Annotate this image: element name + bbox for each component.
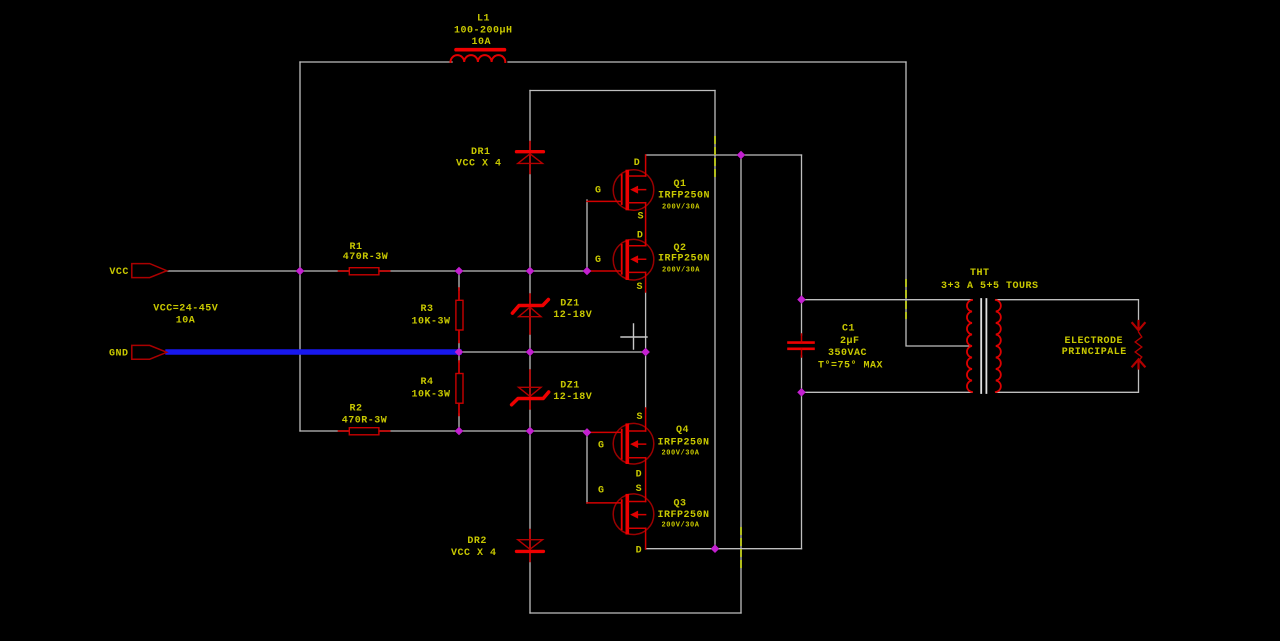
zener DZ1 lower	[512, 370, 549, 409]
svg-text:T°=75° MAX: T°=75° MAX	[818, 360, 883, 372]
svg-text:Q4: Q4	[676, 425, 689, 436]
net highlight dashes x741	[740, 528, 742, 567]
diode DR1	[517, 142, 544, 174]
wire rail y90	[530, 90, 715, 92]
wire left rail x300	[299, 62, 301, 431]
wire bottom outer rail y613	[530, 612, 741, 614]
svg-text:200V/30A: 200V/30A	[662, 522, 700, 530]
mosfet Q2	[587, 239, 654, 292]
transformer THT secondary winding	[996, 300, 1001, 392]
svg-text:12-18V: 12-18V	[553, 392, 592, 403]
wire center tap x906	[906, 62, 971, 346]
svg-text:G: G	[598, 485, 605, 496]
svg-text:G: G	[595, 255, 602, 266]
svg-text:200V/30A: 200V/30A	[662, 204, 700, 212]
svg-text:S: S	[638, 212, 645, 223]
junction VCC / left rail	[296, 267, 305, 276]
wire bottom drain rail y549	[646, 548, 802, 550]
junction GND rail / DZ1	[526, 348, 535, 357]
wire R3 column x459	[458, 271, 460, 352]
wire VCC rail y271	[167, 270, 587, 272]
svg-text:VCC: VCC	[109, 267, 129, 278]
junction bottom rail / R4	[455, 427, 464, 436]
svg-text:100-200µH: 100-200µH	[454, 26, 513, 37]
junction C1 top node	[797, 295, 806, 304]
electrode spark gap symbol	[1132, 321, 1144, 369]
wire primary bottom y392	[802, 391, 973, 393]
junction C1 bottom node	[797, 388, 806, 397]
svg-text:G: G	[595, 186, 602, 197]
cursor crosshair	[621, 324, 647, 349]
svg-text:IRFP250N: IRFP250N	[658, 510, 710, 521]
wire bottom rail y431	[300, 430, 587, 432]
wire mid rail gray y352	[459, 351, 646, 353]
flag VCC	[132, 264, 167, 278]
svg-text:G: G	[598, 440, 605, 451]
svg-text:VCC=24-45V: VCC=24-45V	[153, 304, 218, 315]
svg-text:S: S	[637, 282, 644, 293]
svg-text:ELECTRODE: ELECTRODE	[1065, 336, 1124, 347]
junction bottom rail / DR2	[526, 427, 535, 436]
svg-text:S: S	[637, 412, 644, 423]
wire top rail y62	[300, 61, 906, 63]
svg-text:R4: R4	[421, 377, 434, 388]
svg-text:3+3 A 5+5 TOURS: 3+3 A 5+5 TOURS	[941, 281, 1039, 292]
svg-text:10K-3W: 10K-3W	[412, 390, 451, 401]
svg-text:10A: 10A	[472, 37, 492, 48]
svg-text:D: D	[636, 545, 643, 556]
transformer THT core	[981, 299, 986, 393]
svg-text:12-18V: 12-18V	[553, 310, 592, 321]
svg-text:DR2: DR2	[467, 536, 487, 547]
svg-text:D: D	[637, 230, 644, 241]
wire drain rail y155	[646, 154, 802, 156]
wire gate column upper x587	[586, 200, 588, 271]
svg-text:PRINCIPALE: PRINCIPALE	[1062, 347, 1127, 358]
junction GND rail / R4	[455, 348, 464, 357]
zener DZ1 upper	[512, 294, 548, 334]
wire x715 vertical	[714, 91, 716, 550]
svg-text:S: S	[636, 484, 643, 495]
svg-text:DZ1: DZ1	[560, 298, 580, 309]
resistor R1	[339, 268, 390, 275]
mosfet Q3	[587, 494, 654, 549]
svg-text:2µF: 2µF	[840, 336, 860, 347]
svg-text:VCC X 4: VCC X 4	[456, 159, 502, 170]
svg-text:R3: R3	[421, 304, 434, 315]
diode DR2	[517, 530, 544, 562]
resistor R2	[339, 428, 390, 435]
junction GND rail / Q2-Q4 source	[641, 348, 650, 357]
wire secondary loop	[996, 300, 1139, 393]
svg-text:D: D	[634, 158, 641, 169]
svg-text:470R-3W: 470R-3W	[342, 415, 388, 426]
svg-text:200V/30A: 200V/30A	[662, 267, 700, 275]
svg-text:VCC X 4: VCC X 4	[451, 548, 497, 559]
svg-text:THT: THT	[970, 268, 990, 279]
capacitor C1	[789, 334, 814, 357]
wire primary top y300	[802, 299, 973, 301]
wire source mid x645	[645, 292, 647, 408]
transformer THT primary winding	[967, 300, 972, 392]
inductor L1 core bar	[456, 48, 505, 52]
svg-text:DZ1: DZ1	[560, 381, 580, 392]
wire gate column lower x587	[586, 432, 588, 503]
junction bottom drain rail / x715	[711, 544, 720, 553]
junction drain rail / x741	[737, 151, 746, 160]
resistor R3	[456, 288, 463, 343]
wire GND blue net	[168, 349, 459, 354]
wire zener column x530	[529, 91, 531, 614]
svg-text:Q2: Q2	[674, 243, 687, 254]
mosfet Q1	[587, 155, 654, 246]
svg-text:10A: 10A	[176, 315, 196, 326]
svg-text:350VAC: 350VAC	[828, 348, 867, 359]
junction VCC / DZ1 upper	[526, 267, 535, 276]
svg-text:200V/30A: 200V/30A	[662, 449, 700, 457]
flag GND	[132, 345, 167, 359]
svg-text:GND: GND	[109, 349, 129, 360]
wire x801 vertical	[801, 155, 803, 549]
svg-text:DR1: DR1	[471, 147, 491, 158]
junction bottom rail / Q4 gate	[583, 428, 592, 437]
svg-text:470R-3W: 470R-3W	[343, 252, 389, 263]
svg-text:10K-3W: 10K-3W	[412, 317, 451, 328]
junction VCC / Q2 gate	[583, 267, 592, 276]
svg-text:Q3: Q3	[674, 498, 687, 509]
wire x741 vertical	[740, 155, 742, 613]
mosfet Q4	[587, 408, 654, 497]
svg-text:C1: C1	[842, 324, 855, 335]
wire R4 column x459	[458, 352, 460, 431]
svg-text:L1: L1	[477, 14, 490, 25]
svg-text:R2: R2	[350, 403, 363, 414]
net highlight dashes x715	[714, 137, 716, 176]
svg-text:IRFP250N: IRFP250N	[658, 437, 710, 448]
svg-text:D: D	[636, 470, 643, 481]
svg-text:IRFP250N: IRFP250N	[658, 191, 710, 202]
svg-text:IRFP250N: IRFP250N	[658, 254, 710, 265]
net highlight dashes x906	[905, 280, 907, 318]
svg-text:Q1: Q1	[674, 179, 687, 190]
junction VCC / R3	[455, 267, 464, 276]
resistor R4	[456, 361, 463, 416]
inductor L1 coil	[451, 55, 506, 62]
